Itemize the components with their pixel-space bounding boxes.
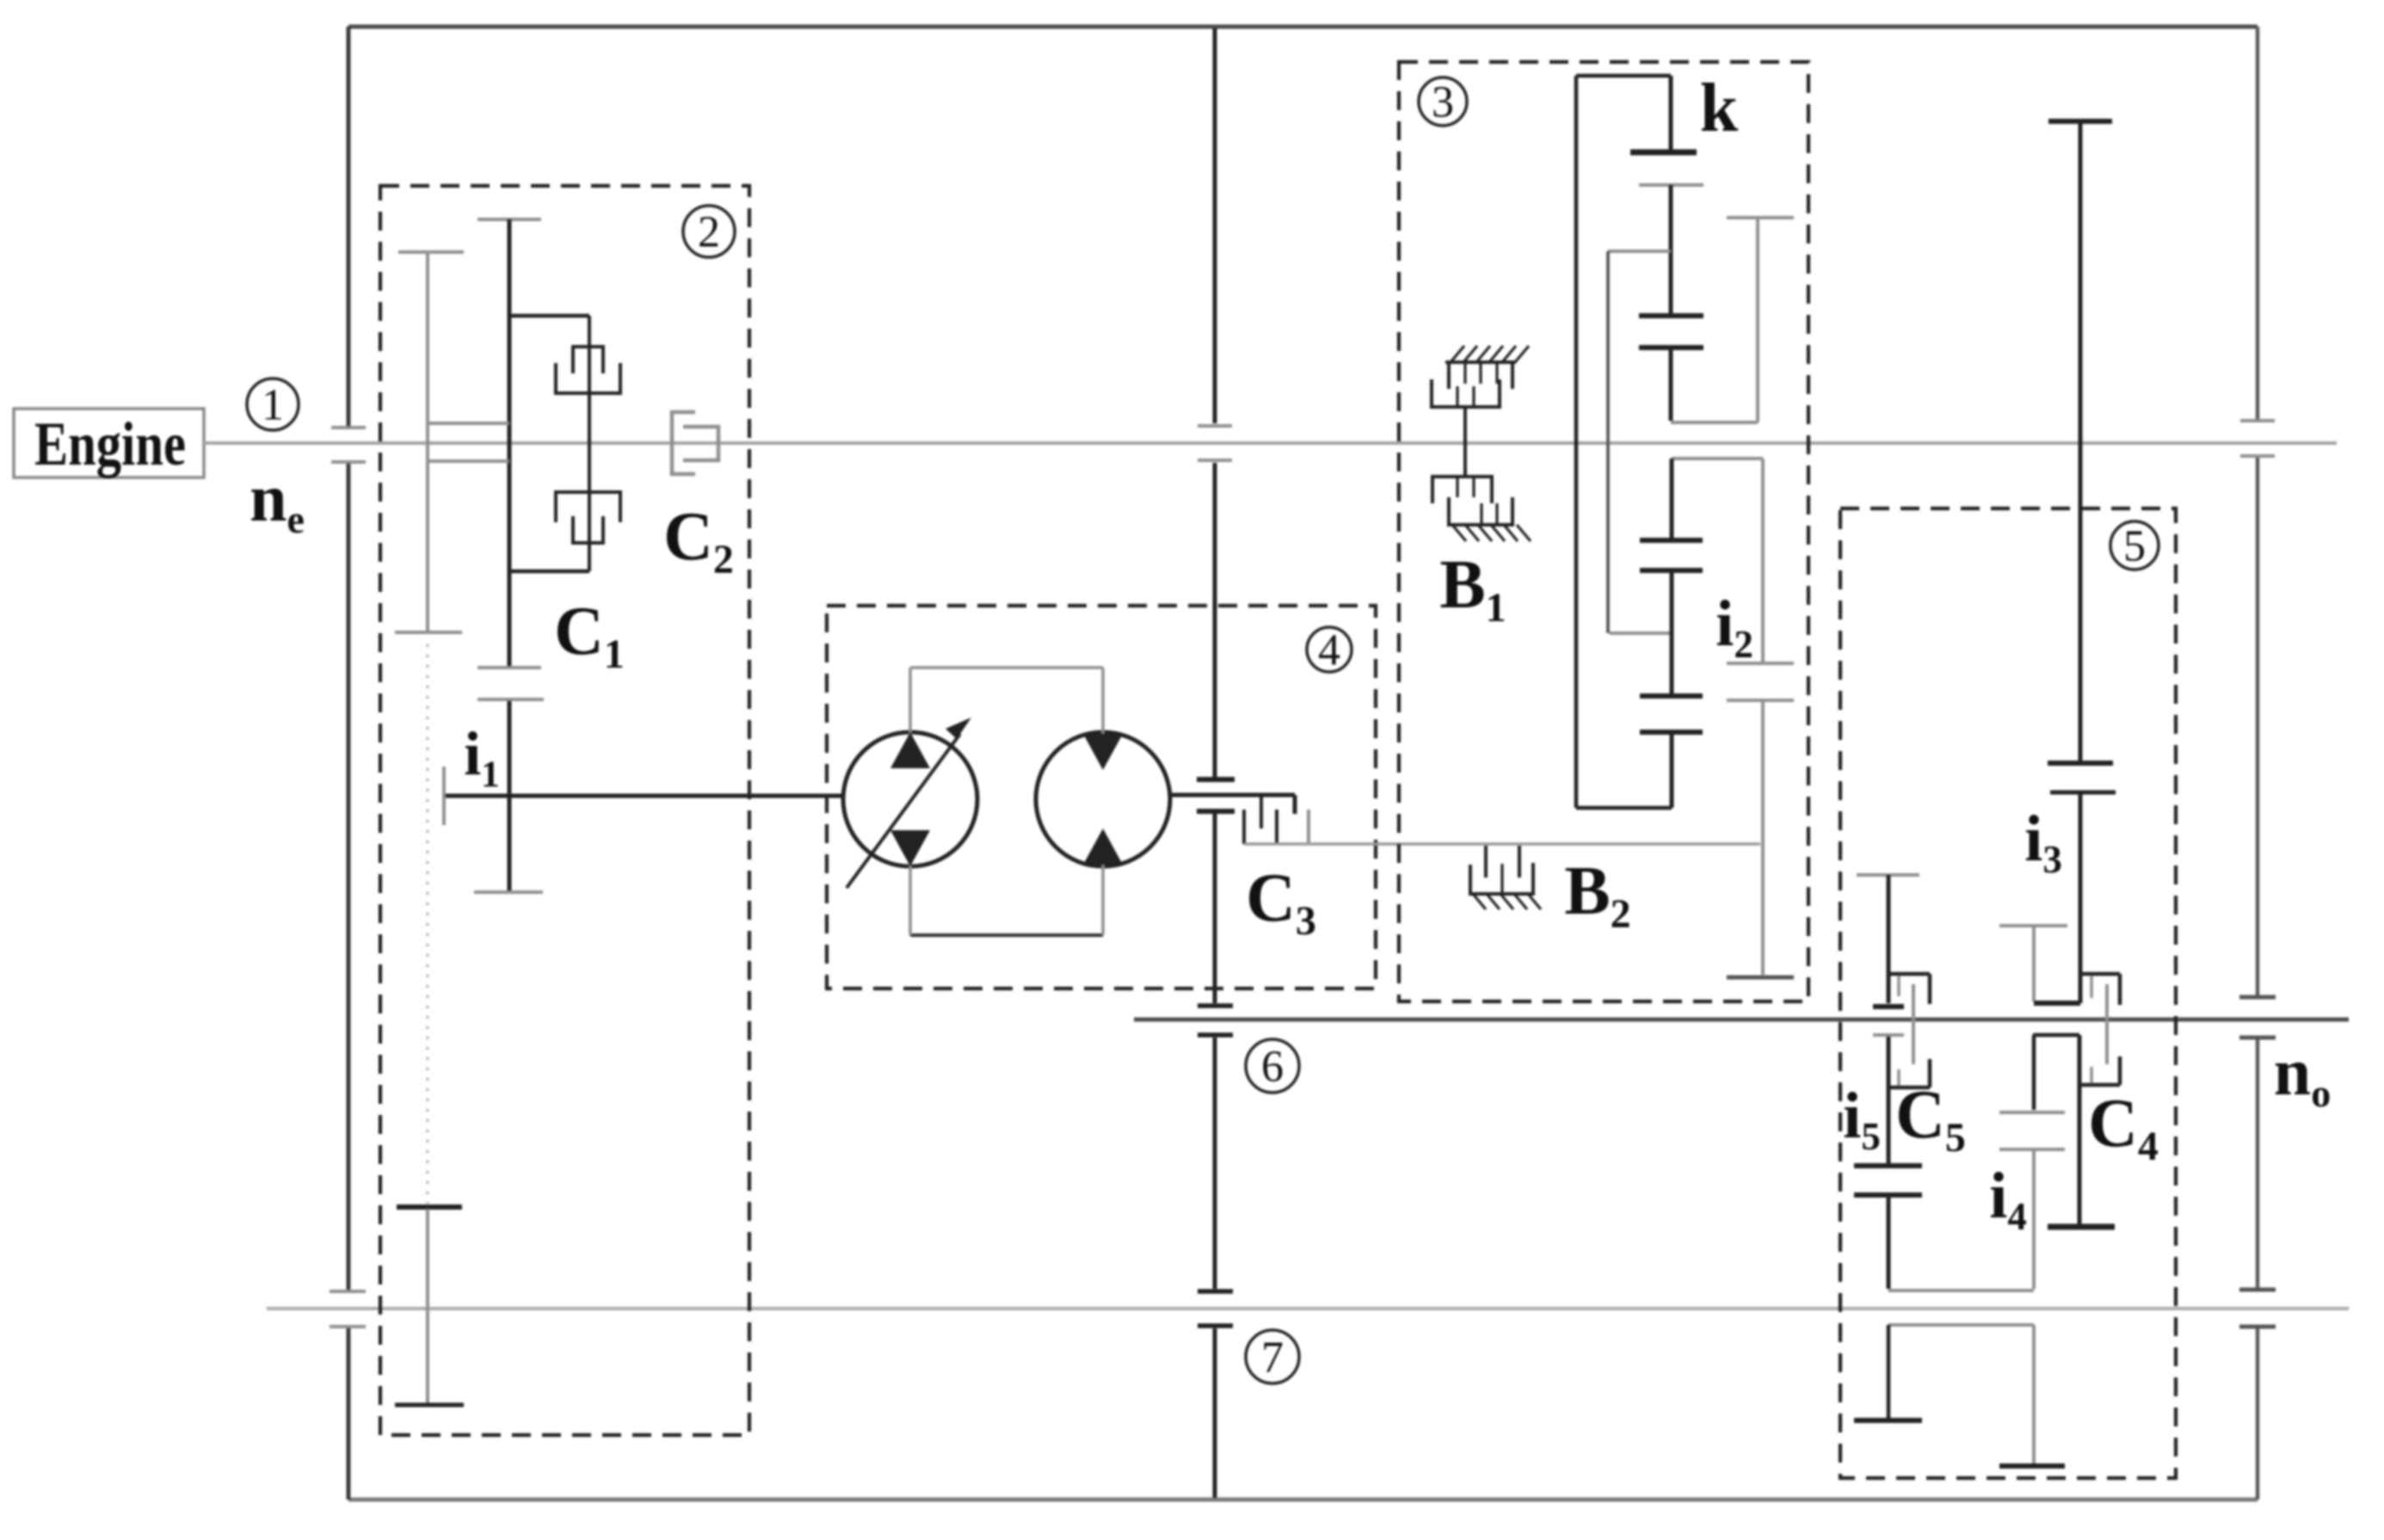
i2 drum column lower [1761, 700, 1765, 975]
motor triangle top [1083, 734, 1123, 770]
shaft 7 pinion top cap [397, 1204, 462, 1210]
planet carrier frame top [1576, 74, 1671, 78]
planet carrier frame left [1574, 76, 1579, 808]
lower gear column b [1670, 570, 1674, 694]
brake B1 upper ground [1445, 360, 1516, 364]
housing frame right border [2256, 27, 2260, 421]
brake B1 lower ground hatching [1452, 525, 1466, 541]
gear i4 mesh caps [1999, 1111, 2065, 1114]
ring gear link column [1669, 348, 1673, 421]
gear i3 long column [2079, 121, 2083, 761]
clutch C1 upper branch [509, 314, 589, 318]
hydraulic line bottom [910, 933, 1103, 937]
section 3 dashed box [1399, 62, 1808, 1001]
bearing bars on right border at output shaft [2239, 995, 2276, 1000]
gear i5 top cap [1857, 873, 1919, 877]
clutch C4 stem [2105, 984, 2109, 1064]
clutch C5 stem [1912, 984, 1915, 1064]
svg-text:i5: i5 [1843, 1080, 1881, 1158]
ring gear drum top cap [1727, 216, 1794, 219]
planet carrier inner post [1606, 251, 1610, 633]
gear i4 right wall [2078, 1035, 2082, 1224]
svg-text:Engine: Engine [34, 410, 186, 478]
engine box [14, 409, 204, 477]
gear column on shaft 1 (vertical) [508, 219, 512, 666]
lower gear column a [1670, 459, 1674, 539]
node 4 label [1307, 627, 1352, 672]
gear i4 lower wall [2032, 1149, 2036, 1289]
sun gear k column [1669, 76, 1673, 152]
bearing bars on right border at shaft 7 [2239, 1288, 2276, 1292]
gear caps central vertical at shaft 7 [1198, 1289, 1233, 1294]
planet gear column upper [1669, 185, 1673, 316]
svg-text:C5: C5 [1895, 1077, 1966, 1161]
gear i5 lowest column [1887, 1195, 1891, 1289]
lower gear column c [1670, 732, 1674, 808]
brake B1 upper plates [1447, 362, 1451, 389]
gear i5 lower column [1887, 1037, 1891, 1163]
shaft i1 left end tick [442, 767, 446, 825]
brake B1 stem [1463, 407, 1467, 477]
svg-text:2: 2 [698, 208, 720, 257]
lower mesh caps b [1640, 693, 1703, 699]
clutch C4 upper jaw [2080, 972, 2120, 976]
gear i5 mesh caps [1854, 1163, 1922, 1168]
gear i4 top bar [2033, 1033, 2079, 1038]
svg-text:i2: i2 [1716, 588, 1753, 666]
gear i4 bottom cap [2048, 1224, 2115, 1230]
clutch C5 upper jaw [1889, 972, 1930, 976]
clutch C5 lower jaw [1889, 1086, 1930, 1090]
gear i5 lower top cap [1873, 1033, 1904, 1037]
gear i5 column [1887, 875, 1891, 1003]
clutch C2 right jaw [683, 427, 718, 460]
clutch C3 plates [1260, 797, 1263, 829]
bearing bars on right border at shaft 1 [2240, 419, 2275, 422]
pump triangle top [890, 732, 930, 768]
clutch C1 lower branch [509, 570, 589, 574]
svg-text:C1: C1 [554, 594, 625, 677]
clutch C1 upper plates [573, 347, 603, 373]
housing frame bottom border [348, 1498, 2258, 1502]
gear i3 hub cap [1999, 924, 2067, 927]
node 7 label [1246, 1330, 1299, 1383]
node 2 label [683, 206, 735, 257]
planet carrier frame bottom [1576, 806, 1672, 810]
housing frame left border [347, 27, 351, 428]
node 6 label [1246, 1039, 1299, 1093]
clutch C1 lower plates [556, 492, 620, 522]
hub tray above shaft 7 [1888, 1289, 2034, 1292]
hollow sleeve connectors at shaft 1 [428, 422, 509, 425]
svg-text:1: 1 [262, 381, 284, 430]
svg-text:B1: B1 [1439, 547, 1506, 631]
gear i4 left wall [2032, 1035, 2036, 1110]
svg-text:B2: B2 [1564, 853, 1630, 937]
hydraulic motor circle [1036, 732, 1170, 866]
svg-text:C2: C2 [663, 499, 734, 582]
motor triangle bottom [1083, 829, 1123, 865]
lower mesh caps a [1640, 538, 1703, 543]
svg-text:ne: ne [249, 460, 305, 541]
gear i3 hub wall [2032, 926, 2036, 1001]
planet carrier inner link top [1608, 249, 1671, 253]
gear i1 bottom cap [474, 890, 543, 894]
clutch C1 stem [588, 316, 591, 571]
variable displacement arrow [847, 734, 960, 888]
motor output shaft [1170, 793, 1295, 798]
shaft 1 : engine input shaft [204, 441, 2337, 445]
brake B2 ground hatching [1473, 894, 1486, 909]
svg-text:k: k [1700, 71, 1739, 146]
sleeve gear column mid bar [395, 631, 462, 634]
shaft 7 pinion bottom cap [395, 1403, 464, 1408]
sun gear k cap [1630, 150, 1697, 156]
shaft7 gear right cap [1999, 1463, 2065, 1469]
central vertical shaft line [1213, 28, 1217, 423]
pump triangle bottom [890, 830, 930, 866]
gear i5 bottom cap [1873, 1004, 1904, 1009]
brake B1 lower plates [1432, 477, 1492, 503]
sleeve gear column (gray) [426, 252, 429, 632]
shaft7 gear right column [2032, 1325, 2036, 1463]
hub tray below shaft 7 [1888, 1323, 2034, 1327]
node 5 label [2110, 521, 2159, 570]
shaft7 gear left cap [1854, 1418, 1922, 1423]
shaft 7 : lower countershaft [267, 1307, 2349, 1310]
shaft 6 : output shaft n_o [1134, 1018, 2349, 1022]
svg-text:7: 7 [1261, 1334, 1284, 1383]
section 5 dashed box [1840, 508, 2176, 1478]
ring gear drum column upper [1756, 218, 1759, 422]
clutch C3 output line (to B2) [1244, 842, 1760, 846]
svg-text:5: 5 [2123, 522, 2146, 571]
gear caps central vertical at output shaft [1198, 1003, 1233, 1008]
sleeve gear column (gray) top cap [398, 250, 464, 254]
clutch C2 left jaw [672, 412, 695, 474]
i2 drum caps [1727, 662, 1794, 665]
section 2 dashed box [380, 186, 749, 1435]
bearing bars on left border at shaft 7 [330, 1290, 366, 1293]
shaft 7 pinion column [426, 1209, 429, 1403]
svg-text:3: 3 [1432, 78, 1454, 127]
gear i3 hub bottom [2034, 1001, 2080, 1006]
svg-text:C4: C4 [2088, 1086, 2159, 1169]
svg-text:4: 4 [1318, 626, 1340, 675]
planet carrier inner link bottom [1610, 631, 1670, 635]
shaft7 gear left column [1887, 1325, 1891, 1418]
bearing bars on left border at shaft 1 [331, 426, 366, 429]
gear i1 driver caps [477, 666, 541, 669]
node 1 (input shaft label) [247, 379, 299, 430]
sleeve column dotted extension [426, 644, 428, 1204]
bearing bars central vertical at shaft 1 [1198, 424, 1232, 428]
lower sun link corner [1672, 457, 1763, 460]
i2 drum column [1761, 459, 1765, 662]
svg-text:C3: C3 [1246, 860, 1316, 944]
gear i3 top cap [2048, 119, 2112, 124]
gear i3 mesh caps [2048, 761, 2113, 766]
housing frame top border [348, 25, 2258, 29]
gear column on shaft 1 (top cap) [477, 218, 541, 221]
shaft i1 : pump drive shaft [445, 794, 845, 798]
i2 drum bottom cap [1727, 976, 1794, 980]
svg-text:i4: i4 [1989, 1160, 2027, 1238]
gear i3 lower column [2079, 792, 2083, 1003]
brake B2 plates [1484, 846, 1488, 878]
svg-text:i3: i3 [2024, 803, 2062, 881]
gear mesh caps central vertical / motor gear [1197, 777, 1235, 782]
planet mesh caps upper [1639, 313, 1703, 318]
planet gear top cap [1639, 183, 1703, 187]
hydraulic line top [910, 666, 1103, 669]
svg-text:i1: i1 [464, 719, 500, 795]
svg-text:6: 6 [1261, 1043, 1284, 1092]
section 4 dashed box [827, 606, 1376, 989]
clutch C4 lower jaw [2080, 1083, 2120, 1087]
node 3 label [1419, 77, 1467, 126]
hydraulic pump (variable) circle [843, 732, 977, 866]
svg-text:no: no [2274, 1034, 2331, 1115]
ring gear link corner [1671, 421, 1758, 424]
gear i1 column [508, 701, 512, 890]
